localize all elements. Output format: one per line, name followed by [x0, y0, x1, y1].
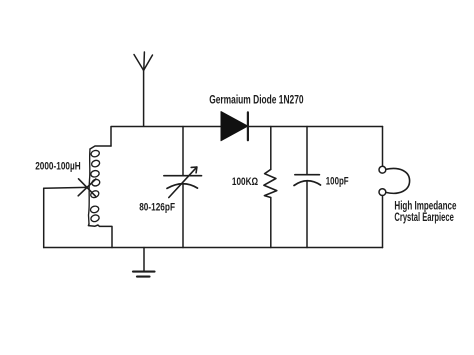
capacitor value label 100pF — [326, 175, 349, 187]
svg-text:Crystal Earpiece: Crystal Earpiece — [394, 212, 453, 224]
resistor R1 bottom stub — [270, 198, 272, 248]
diode D1 cathode bar — [247, 112, 249, 140]
variable capacitor C1 top stub — [182, 127, 184, 176]
svg-text:100pF: 100pF — [326, 175, 349, 187]
svg-text:80-126pF: 80-126pF — [139, 202, 175, 214]
variable capacitor C1 plates — [164, 176, 202, 189]
resistor R1 top stub — [270, 127, 272, 170]
capacitor C2 plates — [294, 175, 321, 186]
svg-text:100KΩ: 100KΩ — [232, 176, 258, 188]
resistor R1 zigzag — [264, 169, 277, 197]
earpiece terminal top — [379, 166, 386, 173]
wire to inductor top — [90, 146, 111, 149]
svg-text:Germaium Diode 1N270: Germaium Diode 1N270 — [209, 95, 303, 107]
antenna — [134, 52, 153, 126]
earpiece label High Impedance / Crystal Earpiece — [394, 201, 456, 224]
inductor value label 2000-100µH — [35, 161, 81, 173]
capacitor C2 bottom stub — [306, 181, 308, 248]
wire inductor bottom to bottom rail — [88, 224, 112, 248]
resistor value label 100KΩ — [232, 176, 258, 188]
earpiece terminal bottom — [379, 189, 386, 196]
wire top right (diode cathode to right corner) — [248, 126, 383, 128]
earpiece curve — [386, 168, 410, 193]
svg-text:High Impedance: High Impedance — [394, 201, 456, 213]
wire left vertical — [43, 188, 45, 247]
wire right top vertical — [382, 127, 384, 167]
capacitor C2 top stub — [306, 127, 308, 175]
tap arrowhead X — [78, 179, 96, 196]
ground — [133, 248, 155, 277]
diode D1 triangle — [221, 112, 248, 141]
wire right bottom vertical — [382, 196, 384, 248]
wire bottom rail — [44, 247, 383, 249]
inductor L1 coil — [89, 149, 101, 224]
tap arrow wire — [44, 186, 86, 189]
wire top left (corner to diode anode) — [111, 127, 221, 147]
variable capacitor C1 bottom stub — [182, 184, 184, 248]
diode label Germaium Diode 1N270 — [209, 95, 303, 107]
variable capacitor value label 80-126pF — [139, 202, 175, 214]
svg-text:2000-100µH: 2000-100µH — [35, 161, 81, 173]
variable capacitor C1 arrow — [169, 167, 197, 198]
